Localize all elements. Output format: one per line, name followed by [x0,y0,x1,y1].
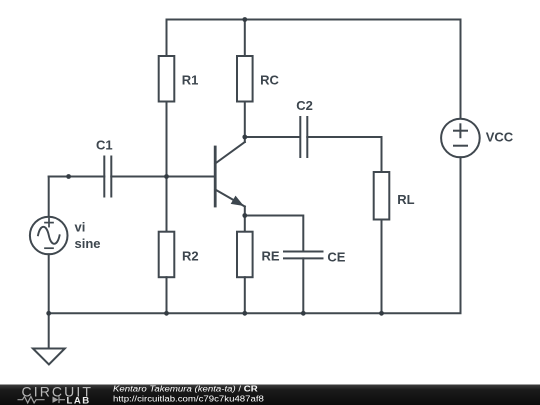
wire C1 to base node [111,176,166,178]
wire RC top [244,20,246,57]
node bottom RL [379,311,384,316]
resistor R2 [159,232,199,278]
wire source to C1 [49,176,105,178]
wire emitter node to CE [245,216,303,252]
svg-text:RL: RL [397,192,414,207]
node bottom R2 [164,311,169,316]
svg-text:C1: C1 [96,137,113,152]
svg-text:C2: C2 [296,98,313,113]
svg-text:Kentaro Takemura (kenta-ta) /: Kentaro Takemura (kenta-ta) / CR [113,384,258,393]
voltage source VCC [441,119,514,158]
wire R2 bottom [166,277,168,313]
node base [164,174,169,179]
svg-text:R1: R1 [182,73,199,88]
wire bottom rail [49,312,382,314]
wire RC bottom to collector node [244,102,246,138]
wire VCC top [460,20,462,119]
footer bar [0,385,540,405]
node bottom source [46,311,51,316]
svg-text:LAB: LAB [67,395,91,405]
wire VCC bottom [382,157,461,313]
footer text [113,384,264,404]
svg-text:vi: vi [75,220,86,235]
node bottom CE [301,311,306,316]
wire source bottom [48,254,50,348]
svg-text:CE: CE [327,249,345,264]
svg-text:RC: RC [260,73,279,88]
transistor Q1 [215,137,245,216]
resistor R1 [159,56,199,102]
CircuitLab logo [18,383,93,405]
resistor RL [374,172,415,220]
wire top rail [167,19,461,21]
svg-text:R2: R2 [182,248,199,263]
wire RE bottom [244,277,246,313]
node top rail / RC [242,17,247,22]
node emitter [242,213,247,218]
resistor RC [237,56,279,102]
wire source top [48,177,50,217]
wire CE bottom [302,258,304,313]
ground [33,349,65,365]
node input [66,174,71,179]
svg-text:sine: sine [75,236,101,251]
capacitor CE [284,249,346,264]
wire collector node to C2 [245,136,300,138]
node collector [242,135,247,140]
wire base node to transistor [167,176,215,178]
svg-text:RE: RE [262,248,280,263]
wire emitter node to RE [244,216,246,232]
wire RL bottom [381,220,383,314]
svg-text:http://circuitlab.com/c79c7ku4: http://circuitlab.com/c79c7ku487af8 [113,394,264,403]
wire base node to R2 [166,177,168,232]
node bottom RE [242,311,247,316]
capacitor C1 [96,137,113,196]
wire C2 to RL corner [307,137,381,172]
resistor RE [237,232,280,278]
svg-text:VCC: VCC [486,130,514,145]
wire R1 top [166,20,168,57]
wire R1 bottom to base node [166,102,168,177]
capacitor C2 [296,98,313,157]
voltage source vi sine [30,217,101,255]
